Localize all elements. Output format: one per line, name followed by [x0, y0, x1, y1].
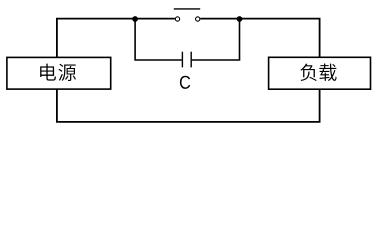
power source box (电源) — [7, 57, 111, 89]
switch S actuator bar — [174, 8, 200, 10]
load label 载 — [319, 64, 336, 81]
wire: top horizontal, source side (power-source corner to switch left terminal) — [57, 19, 175, 58]
switch S right contact terminal — [196, 17, 200, 21]
junction node: top wire to capacitor branch, left — [132, 16, 138, 22]
wire: top horizontal, load side (switch right terminal to load corner) — [200, 19, 319, 58]
wire: capacitor branch right (right plate to vertical rise to top wire) — [192, 19, 240, 60]
capacitor value label C — [180, 76, 190, 89]
power source label 源 — [58, 64, 76, 81]
capacitor C right plate — [190, 52, 192, 68]
wire: capacitor branch left (vertical drop + horizontal to left plate) — [135, 19, 182, 60]
load label 负 — [300, 64, 316, 81]
load box (负载) — [269, 57, 371, 89]
power source label 电 — [40, 64, 56, 81]
switch S left contact terminal — [175, 17, 179, 21]
junction node: top wire to capacitor branch, right — [237, 16, 243, 22]
wire: bottom return (source bottom, along bottom, to load bottom) — [57, 89, 320, 122]
capacitor C left plate — [181, 52, 183, 68]
